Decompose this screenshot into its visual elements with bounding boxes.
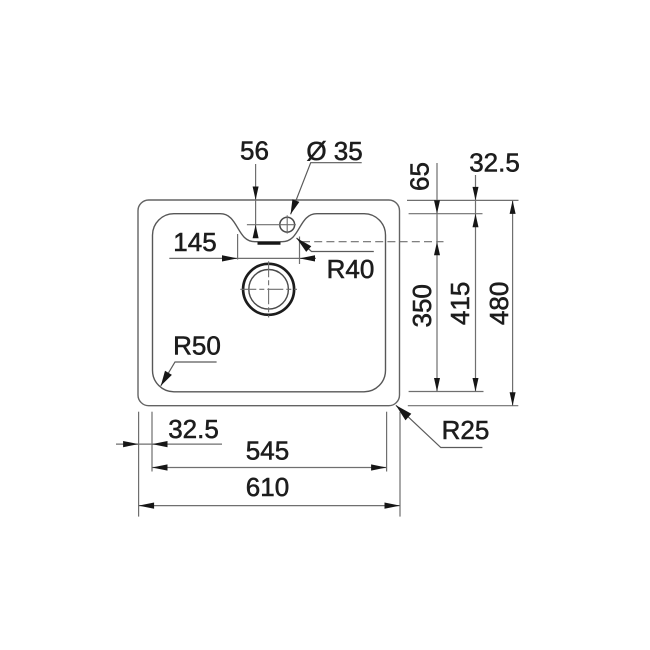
drain outer circle — [243, 264, 294, 315]
545 left arrow — [152, 464, 168, 470]
145 right arrow — [300, 255, 316, 261]
drain inner circle — [249, 270, 289, 310]
56 lower arrow — [253, 225, 259, 239]
drain centerline horizontal — [240, 288, 297, 290]
extension line bowl-left bottom — [151, 412, 153, 472]
480 bottom arrow — [510, 392, 516, 406]
extension line bowl-bottom right — [409, 391, 484, 393]
dim line 545 — [152, 467, 387, 469]
32.5-bottom left arrow — [123, 441, 139, 447]
extension line bowl-right bottom — [386, 412, 388, 472]
svg-text:610: 610 — [246, 472, 289, 502]
leader R50 — [161, 362, 217, 386]
leader R40 — [297, 238, 374, 252]
svg-text:32.5: 32.5 — [168, 414, 219, 444]
R50 leader arrow — [161, 371, 172, 386]
350 bottom arrow — [434, 378, 440, 392]
tap hole circle — [280, 217, 295, 232]
dia-35 leader arrow — [291, 199, 300, 214]
leader diameter 35 — [291, 163, 362, 215]
32.5-top upper arrow — [473, 187, 479, 201]
32.5-bottom right arrow — [152, 441, 168, 447]
R25 leader arrow — [396, 405, 411, 420]
dim line 145 — [169, 257, 316, 259]
svg-text:480: 480 — [484, 282, 514, 325]
extension line outer-left bottom — [138, 412, 140, 517]
65 upper arrow — [434, 200, 440, 214]
545 right arrow — [371, 464, 387, 470]
svg-text:32.5: 32.5 — [469, 148, 520, 178]
415 bottom arrow — [473, 378, 479, 392]
svg-text:56: 56 — [240, 136, 269, 166]
480 top arrow — [510, 200, 516, 214]
610 right arrow — [385, 503, 401, 509]
svg-text:R50: R50 — [173, 331, 221, 361]
extension line bowl-top right — [409, 213, 483, 215]
svg-text:350: 350 — [407, 284, 437, 327]
svg-text:415: 415 — [445, 282, 475, 325]
svg-text:R40: R40 — [327, 254, 375, 284]
arrows — [123, 187, 515, 509]
tap hole crosshair vertical — [286, 215, 288, 233]
extension line outer-bottom right — [408, 405, 519, 407]
tap hole crosshair horizontal — [247, 224, 296, 226]
145 left arrow — [222, 255, 238, 261]
extension line notch-left — [237, 234, 239, 260]
thick ledge edge bar at notch bottom — [258, 242, 281, 245]
drain centerline vertical — [268, 261, 270, 317]
dim line 32.5 bottom — [116, 443, 222, 445]
svg-text:Ø 35: Ø 35 — [306, 136, 362, 166]
56 upper arrow — [253, 187, 259, 201]
dim line 480 column — [512, 200, 514, 405]
extension line outer-right bottom — [399, 412, 401, 517]
32.5-top lower / 415 top arrow — [473, 214, 479, 228]
svg-text:65: 65 — [405, 162, 435, 191]
svg-text:R25: R25 — [442, 415, 490, 445]
sink outer rim rect — [138, 200, 400, 406]
dim line 32.5/415 column — [475, 175, 477, 392]
65 lower / 350 top arrow — [434, 242, 440, 256]
svg-text:145: 145 — [173, 227, 216, 257]
extension line outer-top right — [407, 199, 519, 201]
sink bowl outline with tap ledge notch — [153, 214, 386, 392]
extension line notch-right — [299, 237, 301, 265]
dim line 65/350 column — [436, 163, 438, 392]
svg-text:545: 545 — [246, 436, 289, 466]
dim line 56 column — [255, 164, 257, 237]
dashed tap centre line to right — [302, 241, 444, 243]
leader R25 — [396, 405, 483, 447]
610 left arrow — [139, 503, 155, 509]
dim line 610 — [139, 505, 400, 507]
R40 leader arrow — [297, 238, 312, 252]
